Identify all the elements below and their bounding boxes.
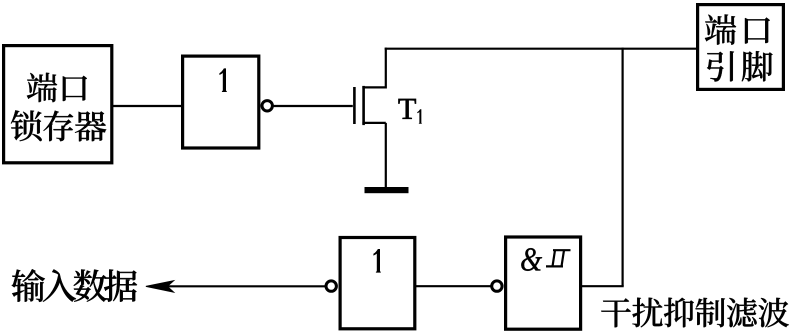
box: port pin (端口引脚) bbox=[698, 5, 784, 90]
label T1 bbox=[398, 99, 421, 124]
transistor T1 gate bar bbox=[353, 87, 356, 124]
wire: node A vertical feedback from top rail down to filter output bbox=[621, 48, 623, 287]
inverter U1 ("1" gate, output drives T1 gate) bbox=[183, 56, 259, 148]
wire: latch output to inverter U1 input bbox=[112, 105, 184, 107]
wire: top rail from T1 drain to port pin box bbox=[385, 48, 698, 50]
transistor T1 drain lead bbox=[362, 86, 385, 88]
label 端口 (port pin box line 1) bbox=[705, 14, 770, 44]
inversion bubble at U1 output bbox=[262, 101, 272, 111]
wire: U1 output bubble to T1 gate bbox=[273, 105, 353, 107]
label 干扰抑制滤波 (interference suppression filter) bbox=[601, 298, 789, 328]
transistor T1 source lead bbox=[362, 122, 385, 124]
label 端口 (latch box line 1) bbox=[27, 73, 87, 102]
label 输入数据 (input data) bbox=[12, 269, 138, 302]
wire: T1 drain up to top rail bbox=[385, 48, 387, 89]
inverter U2 ("1" gate, input path) bbox=[340, 238, 415, 329]
inversion bubble at U3 input bbox=[492, 281, 502, 291]
wire: U2 input line to data-out arrow bbox=[166, 285, 326, 287]
schmitt AND gate U3 ("&" with hysteresis, input filter) bbox=[506, 237, 581, 329]
label 锁存器 (latch box line 2) bbox=[11, 110, 106, 141]
wire: T1 source down to ground bbox=[385, 123, 387, 188]
ground bbox=[365, 187, 409, 193]
transistor T1 channel bar bbox=[362, 86, 365, 125]
inversion bubble at U2 input bbox=[326, 281, 336, 291]
wire: U3 output to feedback node bbox=[581, 285, 624, 287]
hysteresis symbol inside U3 bbox=[546, 250, 571, 266]
box: port latch (端口锁存器) bbox=[4, 46, 112, 163]
arrowhead (input data direction) bbox=[146, 281, 174, 292]
wire: U2 output to U3 input bubble bbox=[415, 285, 491, 287]
label 引脚 (port pin box line 2) bbox=[707, 51, 773, 81]
